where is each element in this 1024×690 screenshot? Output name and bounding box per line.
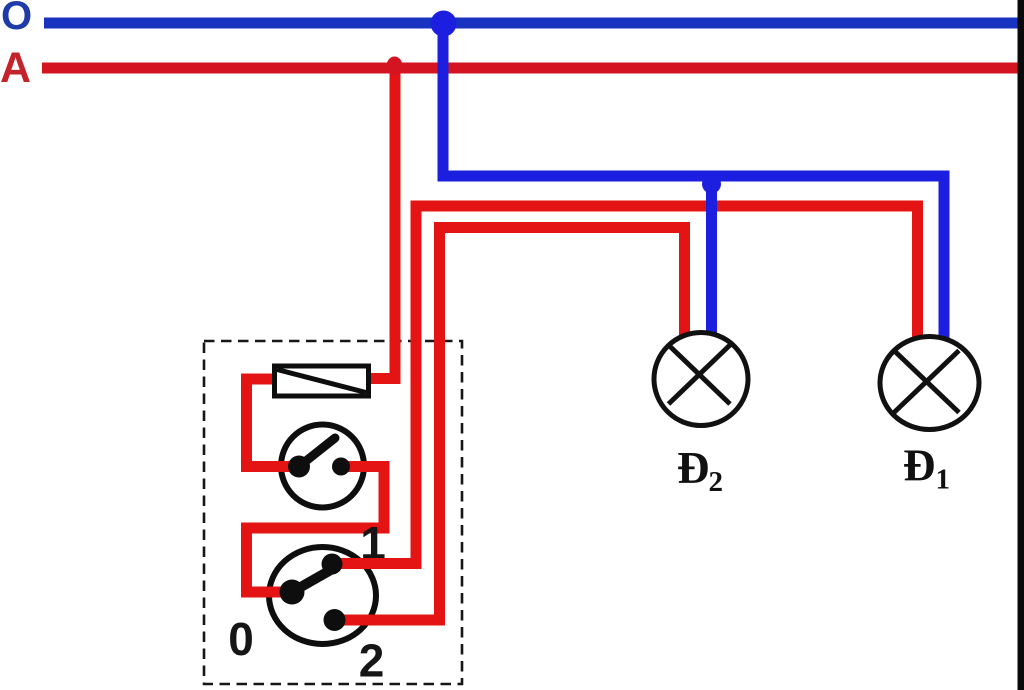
svg-text:1: 1: [936, 464, 951, 496]
terminal dot 2: [324, 609, 346, 631]
wire: red feed from line A down to fuse: [371, 66, 395, 379]
svg-text:O: O: [1, 0, 32, 38]
svg-text:0: 0: [228, 613, 254, 665]
neutral line O: [44, 18, 1018, 29]
lamp D2: [654, 333, 748, 426]
lamp D1: [880, 337, 979, 430]
terminal dot K right: [332, 458, 350, 476]
wire: switch K to selector common terminal: [247, 467, 385, 593]
wire: fuse to switch K: [247, 379, 300, 467]
svg-text:Đ: Đ: [903, 441, 936, 491]
lever selector: [292, 567, 336, 592]
lever K: [299, 438, 335, 467]
svg-text:Đ: Đ: [677, 443, 710, 493]
screen right edge bar: [1018, 0, 1024, 690]
wire: blue branch down to lamp D2: [706, 176, 717, 340]
junction dot on line O: [431, 11, 457, 37]
wire: selector terminal 1 up and across to lamp D1: [332, 206, 918, 564]
terminal dot common 0: [280, 580, 305, 605]
junction dot on blue branch: [702, 175, 721, 194]
wire: blue drop from O, across, down to lamp D1: [443, 25, 944, 340]
selector switch body circle: [269, 547, 376, 644]
junction node on line A: [387, 57, 403, 76]
svg-text:2: 2: [359, 635, 385, 687]
svg-text:A: A: [0, 44, 31, 92]
svg-text:2: 2: [709, 466, 724, 498]
phase line A: [42, 63, 1018, 74]
wire: selector terminal 2 up and across to lamp D2: [334, 228, 685, 621]
fuse F: [275, 366, 369, 396]
terminal dot 1: [322, 554, 343, 575]
terminal dot K left: [288, 456, 310, 478]
switch K body circle: [281, 425, 364, 508]
distribution board (dashed enclosure): [204, 341, 462, 684]
